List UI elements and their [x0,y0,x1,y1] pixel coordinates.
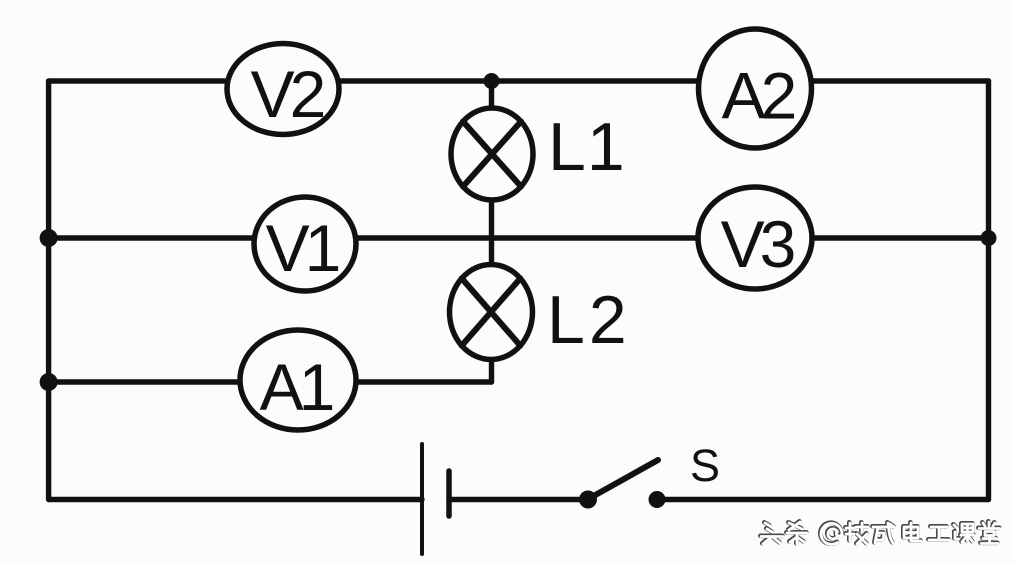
char 工 [928,526,948,539]
svg-text:V2: V2 [251,57,324,131]
node C (right rail / middle wire junction) [981,230,997,246]
char 电 [904,523,921,541]
svg-text:V3: V3 [721,207,794,281]
wire: lamp branch vertical [489,81,494,382]
wire: top horizontal (V2/A2 row) [49,78,989,83]
char 工 [929,527,949,540]
svg-text:L2: L2 [547,282,631,358]
switch S lever [590,460,658,498]
watermark: 头条 @技成电工课堂 [760,521,1000,544]
svg-text:A1: A1 [260,350,333,424]
svg-text:L1: L1 [548,109,626,185]
wire: bottom right segment (switch to right rail) [657,497,989,502]
char 条 [786,521,806,543]
ammeter A1 [240,330,356,430]
battery long plate (positive) [420,444,424,554]
char @ [820,523,841,544]
node D (left rail / third wire junction) [40,373,58,391]
char @ [821,523,842,544]
white top copy [761,522,1000,544]
ammeter A2 [699,29,812,148]
wire: left vertical rail [46,81,51,500]
char 头 [761,523,783,544]
wire: right vertical rail [986,81,991,500]
dark shadow copy [760,521,999,543]
char 课 [953,523,973,541]
char 堂 [978,521,999,543]
voltmeter V3 [698,187,812,289]
char 电 [903,522,920,540]
voltmeter V2 [227,44,339,135]
node A (top junction of lamp branch) [484,73,500,89]
wire: bottom middle segment (battery to switch) [449,497,588,502]
char 技 [846,523,868,544]
char 课 [954,524,974,542]
svg-text:A2: A2 [722,59,795,133]
voltmeter V1 [254,197,356,291]
wire: bottom left segment (to battery) [49,497,422,502]
lamp L2 [450,265,533,360]
svg-text:S: S [690,440,720,491]
node B (left rail / middle wire junction) [40,229,58,247]
char 头 [760,522,782,543]
svg-text:V1: V1 [266,211,339,285]
char 成 [872,522,893,542]
char 条 [787,522,807,544]
switch S contact right [649,491,666,508]
switch S contact left [579,491,597,509]
lamp L1 [451,108,533,200]
wire: third horizontal (A1 row) [49,379,492,384]
char 堂 [979,522,1000,544]
char 成 [873,523,894,543]
battery short plate (negative) [446,471,452,516]
wire: middle horizontal (V1/V3 row) [49,235,989,240]
char 技 [845,522,867,543]
